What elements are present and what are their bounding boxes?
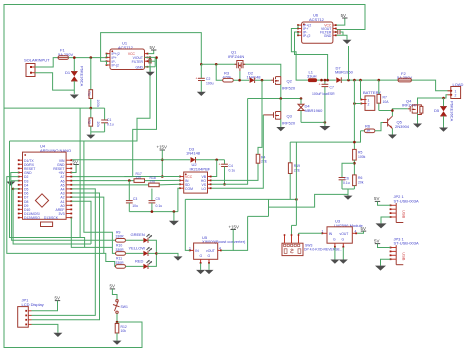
svg-text:C1: C1	[107, 118, 111, 122]
LED YELLOW	[126, 245, 157, 256]
capacitor at U1 FILTER	[149, 59, 155, 64]
svg-text:10A: 10A	[383, 100, 390, 104]
wire switch node y98.5	[248, 98, 301, 100]
svg-text:Q2: Q2	[287, 79, 293, 84]
grounds under U3	[330, 247, 347, 264]
svg-text:C5: C5	[156, 197, 160, 201]
svg-text:C3: C3	[133, 197, 137, 201]
svg-text:5V: 5V	[374, 196, 379, 201]
svg-text:10k: 10k	[121, 329, 127, 333]
wire VIN/D3 line	[71, 159, 190, 161]
svg-text:C6: C6	[345, 176, 349, 180]
svg-text:USB: USB	[402, 252, 407, 261]
wire LO to Q3 gate	[211, 115, 263, 188]
switch SW3 DPDT	[282, 233, 342, 255]
transistor Q1 IRFZ44N (horizontal)	[228, 50, 245, 81]
capacitor C3 10u	[126, 179, 138, 211]
wire D4/C7 ground join	[301, 121, 325, 123]
wire y141 run to fuse-line sense	[10, 58, 151, 141]
svg-text:vOUT: vOUT	[340, 232, 349, 236]
svg-text:+15V: +15V	[157, 145, 167, 150]
svg-text:0.1u: 0.1u	[343, 181, 350, 185]
svg-text:GND: GND	[324, 34, 332, 38]
svg-text:5V: 5V	[55, 296, 60, 301]
wire JP1 gnd	[32, 324, 58, 332]
svg-text:D1: D1	[65, 70, 71, 75]
resistor R7 10k	[377, 80, 389, 110]
svg-text:IRF520: IRF520	[282, 121, 296, 126]
wire R3 to D2	[233, 79, 249, 81]
svg-text:2: 2	[455, 94, 457, 98]
wire sense wrap	[10, 141, 85, 247]
resistor R10 330R	[116, 244, 126, 256]
connector LOAD	[448, 82, 464, 99]
svg-text:RED: RED	[135, 258, 144, 263]
svg-text:ST-USB-003A: ST-USB-003A	[394, 241, 419, 246]
svg-text:5V: 5V	[73, 160, 78, 165]
wire divider bottom join and ground	[342, 188, 354, 190]
connector JP2 ST-USB-003A	[390, 194, 419, 222]
svg-text:IN: IN	[195, 249, 199, 253]
5V supply at U3 out	[357, 226, 366, 233]
wire U5 out to SW3	[233, 216, 247, 250]
wire ground line under C3/C5	[129, 211, 178, 213]
capacitor C4 0.1u bootstrap	[219, 160, 236, 186]
transistor Q3 IRF520	[263, 99, 296, 132]
svg-text:FILTER: FILTER	[132, 60, 144, 64]
svg-text:ST-USB-003A: ST-USB-003A	[394, 198, 419, 203]
ground at U6 GND	[336, 35, 351, 80]
svg-text:GND: GND	[135, 65, 143, 69]
transistor Q5 2N3904	[383, 116, 410, 139]
diode D3 1N4148	[186, 146, 201, 162]
svg-text:3V3: 3V3	[58, 212, 64, 216]
diode D4 MBR1960 freewheel	[298, 99, 323, 123]
resistor R19 22E	[288, 142, 300, 199]
transistor Q4 IRFZ44N	[402, 98, 422, 127]
ground under U2	[169, 212, 179, 226]
svg-text:5V: 5V	[150, 45, 155, 50]
IC U5 XI6009 boost converter	[189, 235, 246, 264]
svg-text:1N4148: 1N4148	[247, 74, 262, 79]
resistor R9 330R	[116, 231, 126, 243]
wire sense line to R6	[290, 131, 360, 142]
5V supply at JP1	[32, 296, 61, 311]
resistor R18 220	[71, 176, 180, 187]
resistor R3 470k	[223, 71, 234, 83]
svg-text:G: G	[208, 254, 211, 258]
capacitor C6 0.1u	[339, 163, 355, 189]
svg-text:0.1u: 0.1u	[229, 168, 236, 172]
LED GREEN	[126, 232, 157, 253]
svg-text:5V: 5V	[361, 226, 366, 231]
svg-text:100k: 100k	[96, 100, 100, 108]
solar input connector X1 SOLARINPUT	[24, 58, 50, 77]
resistor R1 100k	[87, 58, 100, 109]
wire battery pin1	[360, 80, 362, 99]
svg-text:YELLOW: YELLOW	[129, 245, 146, 250]
svg-text:5V: 5V	[341, 13, 346, 18]
wire LOAD- to Q4 drain	[418, 95, 448, 105]
wire fuse to U1 IP+	[69, 57, 107, 59]
svg-text:2: 2	[368, 103, 370, 107]
wire battery sense vertical	[353, 80, 355, 149]
svg-text:10u: 10u	[132, 204, 138, 208]
wire divider line y108	[4, 107, 105, 109]
svg-text:P6KE36CA: P6KE36CA	[449, 101, 454, 122]
5V supply at U6	[336, 13, 347, 25]
svg-text:0.1u: 0.1u	[107, 123, 114, 127]
wire F2 to LOAD	[412, 80, 451, 91]
svg-text:100uF lowESR: 100uF lowESR	[312, 92, 335, 96]
U4 left pins	[18, 159, 40, 220]
wire D3 to VB and C4	[196, 159, 225, 161]
svg-text:0.1u: 0.1u	[156, 204, 163, 208]
diode D7 MBR1960	[335, 65, 354, 83]
svg-text:LO: LO	[201, 187, 206, 191]
junction dots fuse line	[73, 56, 76, 59]
resistor R17 220	[71, 172, 180, 183]
svg-text:5A 250V: 5A 250V	[397, 75, 412, 80]
battery connector BATTERY	[360, 90, 381, 110]
svg-text:G: G	[200, 254, 203, 258]
diode D2 1N4148	[247, 71, 262, 84]
diode D5 P6KE36CA TVS	[434, 98, 454, 132]
svg-text:MBR1960: MBR1960	[335, 69, 354, 74]
capacitor C2 100u	[196, 63, 214, 96]
IC U2 IR2104PBF	[179, 162, 212, 193]
wire COM to ground line	[178, 188, 180, 211]
wire R2/C1 join	[91, 131, 105, 133]
fuse F2	[397, 71, 412, 82]
svg-text:LCD Display: LCD Display	[22, 302, 44, 307]
transistor Q2 IRF520	[271, 77, 296, 99]
wire U1 IP pin shorts	[106, 54, 108, 58]
resistor R11 330R	[116, 257, 126, 269]
svg-text:DP 4.0-KXD-REVERSE..: DP 4.0-KXD-REVERSE..	[304, 248, 342, 252]
ground at JP3	[375, 259, 391, 270]
wire D5 wrap	[12, 188, 15, 191]
svg-text:D5: D5	[434, 108, 440, 113]
svg-text:22E: 22E	[261, 160, 268, 164]
svg-text:33uH: 33uH	[307, 73, 317, 78]
wire U1 VIOUT jog	[145, 57, 156, 66]
wire D3 wrap to R9	[12, 181, 116, 241]
ground at U1 GND	[145, 67, 156, 76]
wire L1 left up to U6	[291, 29, 307, 81]
wire Q4 gate drive	[392, 109, 407, 116]
wire battery pin2	[354, 103, 361, 105]
svg-text:2N3904: 2N3904	[395, 124, 410, 129]
resistor R12 10k	[113, 322, 127, 345]
svg-text:vOUT: vOUT	[206, 249, 215, 253]
wire D2 to Q2 gate	[255, 79, 271, 81]
svg-text:G: G	[333, 237, 336, 241]
wire A3 to LCD SCL	[32, 193, 100, 320]
svg-text:COM: COM	[185, 187, 193, 191]
capacitor C5 0.1u	[149, 189, 163, 212]
svg-text:D12/MISO: D12/MISO	[24, 216, 40, 220]
svg-text:SW1: SW1	[121, 305, 128, 309]
capacitor at U6 FILTER	[336, 30, 343, 36]
svg-text:1k: 1k	[366, 127, 370, 132]
ground under R2	[86, 132, 95, 139]
grounds under U5	[196, 263, 213, 274]
+15V supply at U2	[157, 145, 167, 178]
ground under D1	[70, 95, 79, 99]
resistor R5 100k divider top	[353, 149, 366, 175]
U4 diamond logo	[35, 194, 48, 207]
svg-text:20k: 20k	[358, 181, 364, 185]
svg-text:C7: C7	[330, 86, 334, 90]
fuse F1	[58, 48, 73, 60]
svg-text:R19: R19	[294, 164, 300, 168]
+15V supply from U5 out	[222, 224, 239, 250]
wire solar- down	[35, 73, 75, 90]
svg-text:D13/SCK: D13/SCK	[44, 216, 59, 220]
svg-text:IRF520: IRF520	[282, 86, 296, 91]
inductor L1 33uH	[307, 69, 317, 82]
wire sense column	[295, 142, 297, 225]
wire L1 to D7	[317, 79, 336, 81]
resistor R16 20k divider bottom	[353, 175, 364, 189]
IC U3 LM2596 Module	[321, 219, 363, 248]
5V supply at U4	[71, 160, 79, 173]
ground at JP2	[376, 217, 391, 228]
wire A2 to R11 chain	[71, 197, 104, 253]
wire VCC line	[124, 176, 180, 178]
svg-text:IR2104PBF: IR2104PBF	[190, 166, 211, 171]
switch SW1	[110, 284, 128, 324]
svg-text:1N4148: 1N4148	[186, 150, 201, 155]
svg-text:ACS712: ACS712	[309, 17, 325, 22]
svg-text:P6KE36CA: P6KE36CA	[80, 66, 85, 87]
svg-text:22E: 22E	[294, 168, 301, 172]
LED RED	[126, 253, 157, 269]
wire solar+ to fuse	[35, 58, 58, 67]
svg-text:IN: IN	[329, 232, 333, 236]
op-amp U1 ACS712 current sensor	[106, 41, 149, 70]
svg-text:+15V: +15V	[229, 224, 239, 229]
resistor R2 20k	[87, 108, 100, 132]
diode D1 P6KE36CA TVS	[65, 58, 85, 94]
svg-text:G: G	[342, 237, 345, 241]
svg-text:R5: R5	[358, 151, 362, 155]
wire U6 IP shorts	[297, 25, 299, 28]
svg-text:R6: R6	[358, 176, 362, 180]
ground at U4 left GND	[6, 173, 18, 186]
connector JP1 LCD Display	[18, 298, 44, 328]
svg-text:IRFZ44N: IRFZ44N	[228, 54, 244, 59]
wire LED common to ground	[155, 252, 158, 255]
5V supply at JP3	[374, 238, 391, 247]
svg-text:IP-(2: IP-(2	[112, 64, 119, 68]
wire D2 wrap to R11	[7, 177, 116, 267]
svg-text:MBR1960: MBR1960	[305, 108, 324, 113]
node A7 sense run	[71, 58, 156, 177]
wire U6 IP- to C7 node	[295, 32, 328, 80]
svg-text:SOLARINPUT: SOLARINPUT	[24, 58, 50, 63]
svg-text:USB: USB	[402, 210, 407, 219]
svg-text:5V: 5V	[374, 238, 379, 243]
wire U3 in	[299, 232, 323, 234]
svg-text:100k: 100k	[358, 155, 366, 159]
capacitor C7 100uF lowESR	[312, 80, 335, 96]
wire big border loop net	[4, 5, 365, 348]
connector JP3 ST-USB-003A	[390, 236, 419, 264]
5V supply at JP2	[374, 196, 391, 205]
svg-text:20k: 20k	[96, 122, 100, 128]
U4 usb footprint	[41, 222, 53, 227]
resistor R8 gate	[418, 105, 423, 115]
svg-text:5V: 5V	[110, 284, 115, 289]
wire A4 to LCD SDA	[32, 189, 96, 316]
5V supply at U1	[148, 45, 156, 54]
wire A1 down	[71, 201, 91, 244]
wire D13 to R10	[71, 218, 115, 254]
resistor R6 1k base	[361, 123, 384, 133]
svg-text:Q3: Q3	[287, 114, 293, 119]
svg-text:GREEN: GREEN	[131, 232, 145, 237]
wire drop to R3 line	[216, 64, 223, 80]
IC U4 ARDUINO NANO	[23, 144, 72, 220]
svg-text:100u: 100u	[206, 81, 214, 85]
wire VS net	[211, 99, 247, 185]
svg-text:IP-(2: IP-(2	[303, 34, 310, 38]
op-amp U6 ACS712 battery current sensor	[297, 13, 337, 44]
resistor R4 22E	[211, 80, 267, 180]
wire battery+ to U5 IN	[185, 198, 296, 200]
wire U1 IP- return to top	[101, 33, 202, 65]
U4 right pins	[44, 159, 72, 220]
wire main input rail y64.3	[201, 63, 236, 65]
wire battery rail y80.1	[341, 79, 398, 81]
capacitor C1 0.1u	[101, 108, 114, 132]
